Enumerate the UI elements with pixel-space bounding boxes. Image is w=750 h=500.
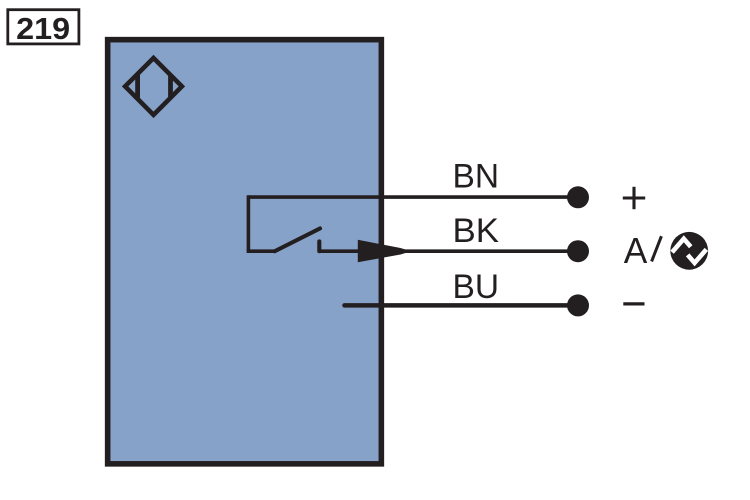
sensor body (blue rectangle) <box>108 40 382 464</box>
plus terminal symbol <box>623 187 645 209</box>
svg-text:BN: BN <box>453 158 500 196</box>
figure number box 219 <box>8 10 79 44</box>
wire BU (blue) horizontal <box>345 303 579 308</box>
wenglor logo: black circle with white zigzag <box>670 232 708 270</box>
wire: vertical drop from BN to switch <box>247 195 251 251</box>
wire BN (brown) horizontal <box>248 195 578 199</box>
terminal dot BN <box>567 186 589 208</box>
svg-text:A: A <box>624 230 648 271</box>
proximity sensor symbol: diamond <box>125 58 182 115</box>
svg-text:BU: BU <box>453 268 500 306</box>
wire BK (black) horizontal <box>320 249 578 253</box>
switch contact hook <box>317 241 321 251</box>
diamond left chord <box>135 74 140 99</box>
terminal dot BK <box>567 240 589 262</box>
wire: switch bottom stub <box>247 249 276 253</box>
svg-text:219: 219 <box>16 11 70 46</box>
arrowhead on BK wire <box>358 240 408 262</box>
slash <box>652 236 662 261</box>
svg-text:BK: BK <box>453 212 500 250</box>
diamond right chord <box>168 75 173 98</box>
switch blade (normally open contact) <box>275 228 320 251</box>
terminal dot BU <box>567 294 589 316</box>
minus terminal symbol <box>623 302 644 305</box>
